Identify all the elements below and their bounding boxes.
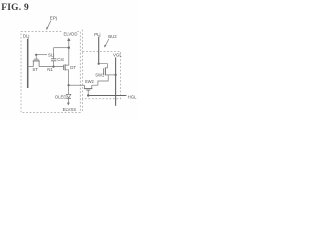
- Cst bottom plate: [51, 60, 56, 62]
- SW1 source wire: [105, 74, 115, 76]
- SW2 channel bar: [84, 88, 92, 90]
- svg-text:FIG. 9: FIG. 9: [1, 3, 29, 13]
- svg-text:PLj: PLj: [94, 32, 100, 37]
- transistor ST (switching): [33, 55, 40, 67]
- OLED anode wire: [68, 85, 70, 94]
- SW1 channel bar: [104, 67, 106, 75]
- ST gate bar: [34, 58, 39, 60]
- ST left leg: [32, 61, 34, 67]
- svg-text:ELVDD: ELVDD: [64, 32, 78, 37]
- transistor SW2: [84, 85, 92, 95]
- svg-text:EPj: EPj: [50, 15, 57, 20]
- svg-text:ELVSS: ELVSS: [63, 107, 77, 112]
- ST right leg: [38, 61, 40, 67]
- ELVDD supply wire: [54, 47, 69, 49]
- Cst top plate: [51, 58, 56, 60]
- DT channel bar: [64, 64, 66, 70]
- node dot PLj end: [98, 63, 100, 65]
- SW2 gate wire down: [87, 90, 89, 95]
- OLED diode: [66, 94, 71, 98]
- control line PLj: [98, 37, 100, 64]
- node N1 dot: [52, 66, 54, 68]
- pixel unit dashed box DUj (left): [21, 32, 80, 113]
- svg-text:DLj: DLj: [23, 33, 30, 38]
- DT gate bar: [63, 65, 65, 70]
- scan line stub wire: [36, 54, 47, 56]
- data line DLj: [27, 39, 29, 88]
- Cst top wire: [53, 48, 55, 59]
- svg-text:Cst: Cst: [57, 57, 64, 62]
- svg-text:OLED: OLED: [55, 94, 67, 99]
- transistor DT (driving): [64, 48, 69, 85]
- ELVSS arrow: [67, 98, 69, 103]
- VGL line: [115, 57, 117, 105]
- boundary dashed riser above box: [82, 30, 84, 52]
- wire N2 to SW2: [69, 84, 85, 86]
- ST gate wire: [35, 55, 37, 59]
- DT source wire down: [65, 70, 69, 85]
- label ELVDD: [62, 31, 77, 36]
- leader arrow for BU2: [105, 39, 108, 46]
- SW2 left leg: [83, 85, 85, 88]
- wire DLj to ST: [28, 66, 34, 68]
- junction dot SW2 gate / HGL: [87, 94, 89, 96]
- capacitor Cst: [51, 48, 56, 67]
- transistor SW1: [99, 64, 116, 76]
- leader arrow for EPj: [47, 21, 51, 29]
- OLED cathode bar: [66, 97, 71, 99]
- node N2 dot: [68, 84, 70, 86]
- svg-text:VGL: VGL: [113, 53, 122, 58]
- ST channel bar: [33, 60, 40, 62]
- ELVDD junction dot: [68, 47, 70, 49]
- HGL wire: [88, 95, 126, 97]
- SW2 right leg: [91, 85, 93, 88]
- svg-text:ST: ST: [32, 67, 38, 72]
- Cst bottom wire: [53, 61, 55, 67]
- protection unit dashed box (right): [83, 52, 121, 99]
- node dot on scan stub: [35, 54, 37, 56]
- junction dot SW1/VGL: [115, 74, 117, 76]
- svg-text:BU2: BU2: [108, 34, 117, 39]
- wire SW2 to SW1 source (staircase): [92, 75, 108, 85]
- wire ST to DT gate (node N1 wire): [39, 66, 63, 68]
- ELVDD arrow: [68, 41, 70, 47]
- SW1 gate bar: [103, 68, 105, 74]
- SW1 drain wire from PLj node: [99, 64, 108, 68]
- svg-text:DT: DT: [70, 65, 76, 70]
- svg-text:HGL: HGL: [128, 94, 137, 99]
- SW2 gate bar: [86, 89, 90, 91]
- svg-text:SW1: SW1: [95, 72, 105, 77]
- shared boundary dashed continuation below box: [82, 99, 84, 113]
- DT drain wire up: [65, 48, 69, 65]
- svg-text:N1: N1: [47, 67, 53, 72]
- svg-text:SW2: SW2: [85, 79, 95, 84]
